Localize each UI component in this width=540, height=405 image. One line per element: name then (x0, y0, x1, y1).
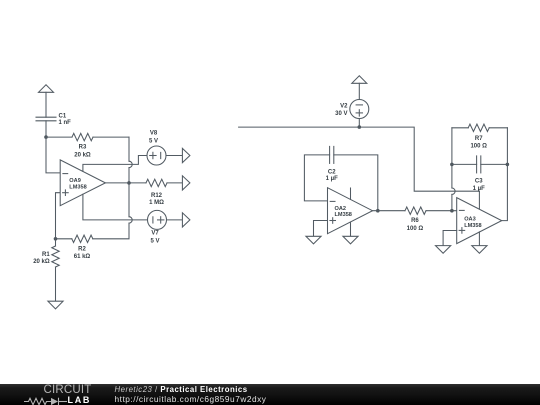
wire feedback bus down with hop over V+ row (128, 137, 130, 161)
svg-text:1 MΩ: 1 MΩ (149, 200, 164, 206)
capacitor C3 (477, 156, 481, 173)
svg-text:20 kΩ: 20 kΩ (74, 152, 91, 158)
ground under R1 (48, 301, 63, 309)
supply bus wire (239, 127, 480, 191)
op-amp OA2 LM358 (328, 188, 373, 234)
wire C3 row left lead (452, 163, 477, 165)
label OA3 LM358 (464, 217, 481, 229)
wire flag to C1 top (45, 92, 47, 117)
supply bus junction dot (358, 125, 362, 129)
wire op-amp output to R12 (105, 182, 146, 184)
wire OA3 V+ stub from bus (478, 191, 480, 209)
svg-text:1 µF: 1 µF (473, 186, 485, 192)
wire OA2 V- stub to ground (350, 222, 352, 236)
wire V7 to flag (167, 219, 183, 221)
node flag VCC (up triangle) above C1 (39, 85, 54, 93)
label R12 1 MOhm (149, 193, 164, 206)
label V7 5 V (150, 231, 159, 245)
wire R1 to ground (55, 267, 57, 301)
resistor R3 (72, 133, 93, 140)
node flag VCC (up triangle) above V2 (352, 76, 367, 84)
svg-text:C1: C1 (59, 114, 67, 120)
ground under OA3 V- (472, 246, 487, 254)
label C2 1 uF (326, 170, 338, 182)
label R2 61 kOhm (74, 247, 91, 260)
wire R7 row left lead (452, 127, 468, 129)
svg-text:R1: R1 (42, 252, 50, 258)
wire R2 to node B (56, 238, 72, 240)
svg-text:R3: R3 (79, 145, 87, 151)
OA2 output junction dot (376, 209, 380, 213)
resistor R2 (72, 235, 93, 242)
voltage source V8 (147, 146, 166, 165)
output flag port (middle) (182, 176, 190, 190)
svg-text:100 Ω: 100 Ω (470, 144, 487, 150)
wire loop left down to hop (451, 164, 453, 188)
wire hop over supply bus (452, 188, 455, 194)
wire OA2 - input to C2 loop (304, 155, 329, 201)
circuitlab logo (44, 384, 92, 396)
svg-text:5 V: 5 V (149, 139, 158, 145)
label V2 30 V (335, 104, 348, 117)
svg-text:C3: C3 (475, 178, 483, 184)
wire R7 row right lead (489, 127, 507, 129)
label R3 20 kOhm (74, 145, 91, 159)
output flag port (top) (182, 148, 190, 162)
svg-text:OA9: OA9 (69, 178, 81, 184)
svg-text:5 V: 5 V (150, 238, 159, 244)
wire bus to output node (128, 168, 130, 183)
banner text (115, 386, 248, 394)
svg-text:1 µF: 1 µF (326, 176, 338, 182)
label OA9 LM358 (69, 178, 86, 190)
svg-text:R12: R12 (151, 193, 163, 199)
resistor R12 (146, 179, 167, 186)
wire V2 to supply bus (358, 119, 360, 128)
label V8 5 V (149, 131, 158, 145)
ground at OA2 + input (306, 236, 321, 244)
wire hop over V8 row (129, 161, 132, 167)
wire node B to R1 (55, 239, 57, 246)
node A junction dot (44, 135, 48, 139)
wire bus output node down with hop over V- row (128, 183, 130, 217)
svg-text:C2: C2 (328, 170, 336, 176)
svg-text:R7: R7 (475, 136, 483, 142)
OA3 - input junction dot (450, 209, 454, 213)
wire flag to V2 (358, 83, 360, 99)
svg-text:OA2: OA2 (335, 206, 347, 212)
capacitor C1 (36, 117, 56, 121)
svg-text:V8: V8 (150, 131, 158, 137)
wire loop right vertical to OA3 output (502, 128, 508, 221)
svg-text:61 kΩ: 61 kΩ (74, 254, 91, 260)
bottom banner (0, 384, 540, 405)
ground at OA3 + input (436, 246, 451, 254)
svg-text:OA3: OA3 (464, 217, 476, 223)
wire OA3 + input to ground (443, 231, 457, 246)
wire OA9 V- pin to V7 (83, 194, 148, 220)
resistor R6 (405, 207, 426, 214)
svg-text:R2: R2 (78, 247, 86, 253)
wire C3 row right lead (481, 163, 508, 165)
output flag port (bottom) (182, 213, 190, 227)
wire OA2 output to R6 (373, 210, 406, 212)
C3 row right junction dot (506, 163, 510, 167)
wire hop to - input node (451, 194, 453, 210)
capacitor C2 (330, 146, 334, 163)
svg-text:LM358: LM358 (464, 223, 481, 229)
label C1 1 nF (59, 114, 72, 126)
svg-text:LM358: LM358 (69, 184, 86, 190)
wire hop over V7 row (129, 217, 132, 223)
wire OA9 V+ pin to V8 (83, 156, 147, 172)
svg-text:LM358: LM358 (335, 212, 352, 218)
voltage source V7 (148, 210, 167, 229)
wire R6 to OA3 - input (426, 210, 457, 212)
wire C1 bottom to node A (45, 121, 47, 137)
resistor R7 (468, 124, 489, 131)
voltage source V2 (350, 100, 369, 119)
wire C2 to OA2 output (334, 155, 378, 211)
wire node A to R3 (46, 136, 72, 138)
wire V8 to flag (166, 155, 182, 157)
wire R12 to flag (167, 182, 182, 184)
label R1 20 kOhm (33, 252, 50, 265)
output node junction dot (127, 181, 131, 185)
ground under OA2 V- (343, 236, 358, 244)
resistor R1 (52, 246, 59, 267)
wire bus to R2 right end (93, 223, 129, 239)
op-amp OA3 LM358 (457, 198, 502, 244)
label R7 100 Ohm (470, 136, 487, 150)
wire OA3 V- stub to ground (478, 232, 480, 246)
wire R7/C3 loop left vertical (451, 128, 453, 165)
node B junction dot (54, 237, 58, 241)
svg-text:20 kΩ: 20 kΩ (33, 259, 50, 265)
wire R3 to feedback bus (93, 136, 129, 138)
svg-text:100 Ω: 100 Ω (407, 226, 424, 232)
op-amp OA9 LM358 (60, 160, 105, 206)
label R6 100 Ohm (407, 218, 424, 232)
svg-text:V7: V7 (151, 231, 159, 237)
svg-text:V2: V2 (340, 104, 348, 110)
svg-text:1 nF: 1 nF (59, 120, 72, 126)
wire OA2 + input to ground (314, 221, 328, 237)
C3 row left junction dot (450, 163, 454, 167)
svg-text:R6: R6 (411, 218, 419, 224)
label OA2 LM358 (335, 206, 352, 218)
wire node B up to non-inverting input (56, 193, 61, 239)
wire OA2 V+ stub (unconnected) (350, 188, 352, 199)
label C3 1 uF (473, 178, 485, 192)
wire node A down to inverting input (46, 137, 60, 173)
svg-text:30 V: 30 V (335, 111, 347, 117)
